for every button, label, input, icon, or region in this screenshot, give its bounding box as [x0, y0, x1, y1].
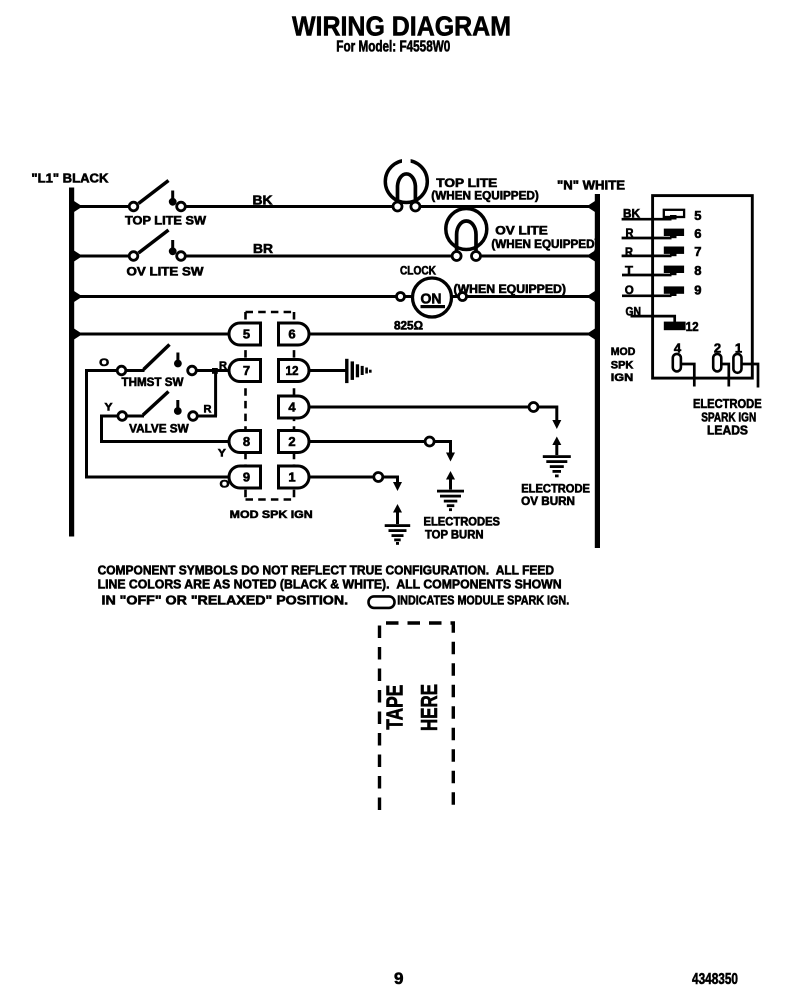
svg-text:TOP BURN: TOP BURN: [425, 530, 484, 542]
svg-text:MOD SPK IGN: MOD SPK IGN: [230, 509, 313, 521]
svg-text:R: R: [626, 226, 634, 240]
svg-text:(WHEN EQUIPPED): (WHEN EQUIPPED): [491, 239, 598, 251]
svg-text:COMPONENT SYMBOLS DO NOT REFLE: COMPONENT SYMBOLS DO NOT REFLECT TRUE CO…: [98, 563, 554, 578]
svg-text:MOD: MOD: [611, 346, 636, 358]
svg-text:VALVE SW: VALVE SW: [129, 424, 189, 436]
svg-text:6: 6: [288, 327, 295, 342]
svg-text:8: 8: [243, 434, 250, 449]
svg-text:T: T: [625, 264, 634, 278]
svg-text:TOP LITE SW: TOP LITE SW: [125, 216, 206, 228]
svg-text:INDICATES MODULE SPARK IGN.: INDICATES MODULE SPARK IGN.: [397, 593, 569, 608]
svg-text:TOP LITE: TOP LITE: [436, 178, 497, 190]
svg-text:BR: BR: [253, 242, 273, 256]
svg-text:9: 9: [394, 969, 403, 988]
svg-text:8: 8: [694, 263, 701, 278]
svg-text:"N" WHITE: "N" WHITE: [557, 179, 625, 193]
svg-text:O: O: [220, 479, 231, 491]
svg-text:9: 9: [694, 283, 701, 298]
svg-text:5: 5: [694, 208, 701, 223]
svg-text:TAPE: TAPE: [381, 685, 407, 730]
svg-text:R: R: [204, 404, 212, 416]
svg-text:9: 9: [243, 470, 250, 485]
svg-text:Y: Y: [105, 402, 114, 414]
svg-text:OV BURN: OV BURN: [521, 496, 575, 508]
svg-text:IGN: IGN: [611, 372, 634, 384]
svg-text:825Ω: 825Ω: [394, 321, 423, 333]
svg-text:5: 5: [243, 327, 250, 342]
svg-text:"L1" BLACK: "L1" BLACK: [31, 172, 108, 186]
svg-text:CLOCK: CLOCK: [400, 266, 437, 278]
svg-text:OV LITE: OV LITE: [495, 226, 548, 238]
svg-text:SPARK IGN: SPARK IGN: [701, 410, 756, 424]
svg-text:4: 4: [288, 400, 296, 415]
svg-text:ELECTRODES: ELECTRODES: [424, 517, 501, 529]
svg-text:HERE: HERE: [416, 684, 442, 731]
svg-text:O: O: [625, 283, 634, 297]
svg-text:WIRING DIAGRAM: WIRING DIAGRAM: [292, 11, 511, 42]
svg-text:Y: Y: [218, 448, 227, 460]
svg-text:OV LITE SW: OV LITE SW: [127, 267, 204, 279]
svg-text:7: 7: [243, 363, 250, 378]
svg-text:For Model: F4558W0: For Model: F4558W0: [336, 39, 450, 56]
svg-text:GN: GN: [626, 304, 642, 318]
svg-text:7: 7: [694, 244, 701, 259]
svg-text:THMST SW: THMST SW: [122, 377, 184, 389]
svg-text:2: 2: [288, 434, 295, 449]
svg-text:(WHEN EQUIPPED): (WHEN EQUIPPED): [454, 284, 567, 296]
svg-text:LEADS: LEADS: [707, 424, 748, 438]
svg-text:(WHEN EQUIPPED): (WHEN EQUIPPED): [431, 191, 539, 203]
svg-text:R: R: [625, 245, 633, 259]
svg-text:12: 12: [286, 363, 299, 378]
svg-text:ELECTRODE: ELECTRODE: [693, 397, 762, 411]
svg-text:BK: BK: [253, 194, 273, 208]
svg-text:O: O: [99, 357, 110, 369]
svg-text:R: R: [219, 360, 227, 372]
svg-text:LINE COLORS ARE AS NOTED (BLAC: LINE COLORS ARE AS NOTED (BLACK & WHITE)…: [98, 577, 562, 592]
svg-text:6: 6: [694, 226, 701, 241]
svg-text:IN "OFF" OR "RELAXED" POSITION: IN "OFF" OR "RELAXED" POSITION.: [102, 593, 349, 608]
svg-text:SPK: SPK: [611, 360, 634, 372]
svg-text:4348350: 4348350: [692, 971, 738, 988]
svg-text:ELECTRODE: ELECTRODE: [521, 483, 590, 495]
svg-text:ON: ON: [421, 291, 442, 308]
svg-text:12: 12: [686, 319, 699, 334]
svg-text:1: 1: [288, 470, 295, 485]
svg-text:BK: BK: [623, 206, 640, 220]
